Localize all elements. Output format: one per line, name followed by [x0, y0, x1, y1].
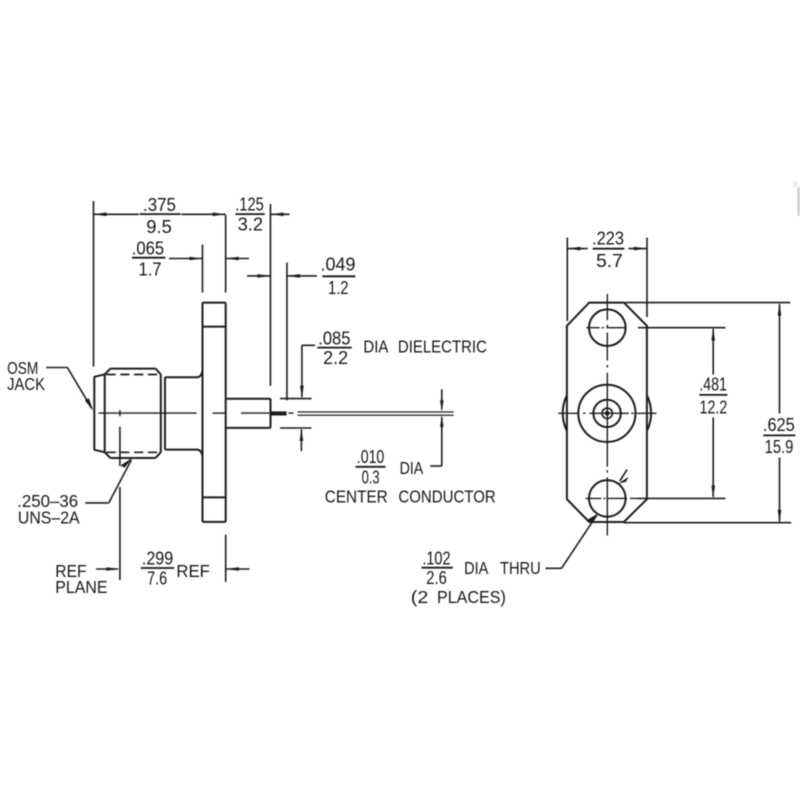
- svg-text:9.5: 9.5: [146, 217, 172, 237]
- ext line .223 right: [646, 238, 648, 318]
- svg-text:PLACES): PLACES): [437, 587, 506, 607]
- svg-text:.065: .065: [132, 238, 164, 258]
- arrow .049 left outside: [258, 274, 271, 278]
- thread dashed lines: [107, 375, 162, 453]
- left side arc bulge: [563, 396, 567, 431]
- right side arc bulge: [647, 396, 651, 431]
- svg-text:PLANE: PLANE: [55, 577, 107, 597]
- arrow conductor bottom (up): [440, 416, 444, 427]
- arrow dielectric bottom (up): [300, 428, 304, 441]
- bottom hole centerline: [586, 497, 644, 499]
- arrowheads right view: [567, 247, 781, 523]
- svg-text:CENTER: CENTER: [325, 486, 388, 506]
- arrow dielectric top (down): [300, 386, 304, 399]
- dia center conductor arrow stems: [441, 389, 443, 409]
- arrowheads left view: [85, 213, 444, 571]
- arrow .065 right outside: [226, 257, 239, 261]
- svg-text:.102: .102: [422, 549, 450, 569]
- extension line flange rear: [225, 215, 227, 293]
- pin dot: [605, 411, 610, 416]
- svg-text:.085: .085: [318, 329, 350, 349]
- bar .125/3.2: [235, 213, 264, 215]
- barrel: [165, 371, 203, 456]
- extension line flange rear lower (.299): [225, 535, 227, 582]
- center outer circle: [578, 385, 635, 442]
- arrow .250-36 leader: [121, 457, 133, 467]
- svg-text:THRU: THRU: [500, 558, 541, 578]
- bar .010/0.3: [356, 466, 386, 468]
- .299 right tail: [226, 568, 250, 570]
- bar .223/5.7: [593, 248, 625, 250]
- dim .125 right tail: [271, 213, 290, 215]
- dielectric: [226, 399, 271, 428]
- svg-text:UNS–2A: UNS–2A: [18, 508, 80, 528]
- arrow conductor top (down): [440, 400, 444, 411]
- svg-text:5.7: 5.7: [596, 251, 623, 271]
- top hole centerline: [586, 327, 626, 329]
- arrow ref plane: [106, 567, 119, 571]
- ext line .625 bottom: [624, 522, 791, 524]
- svg-text:1.7: 1.7: [139, 260, 162, 280]
- dim line .375: [94, 213, 139, 215]
- svg-text:CONDUCTOR: CONDUCTOR: [398, 486, 495, 506]
- arrow .223 left: [567, 247, 580, 251]
- dia dielectric arrow stems: [301, 345, 303, 397]
- svg-text:12.2: 12.2: [700, 398, 728, 418]
- ref plane line: [119, 427, 121, 580]
- svg-text:.481: .481: [699, 375, 727, 395]
- svg-text:REF: REF: [176, 561, 209, 581]
- svg-text:DIA: DIA: [464, 558, 488, 578]
- svg-text:.125: .125: [235, 195, 264, 215]
- vertical centerline: [606, 294, 608, 536]
- ext line hole bottom: [638, 497, 726, 499]
- center pin: [271, 411, 287, 415]
- bar .625/15.9: [763, 434, 795, 436]
- flange side view: [203, 303, 226, 522]
- svg-text:.299: .299: [142, 548, 173, 568]
- svg-text:0.3: 0.3: [362, 467, 380, 487]
- svg-text:2.2: 2.2: [323, 348, 348, 368]
- svg-text:.223: .223: [592, 228, 624, 248]
- right view dimensions: [546, 238, 792, 569]
- arrow .065 left: [189, 257, 202, 261]
- centerline left view: [99, 410, 294, 416]
- dim line .049: [247, 275, 271, 277]
- svg-text:.375: .375: [143, 195, 176, 215]
- dim line .481: [712, 329, 714, 375]
- arrow .125 right outside: [271, 213, 284, 217]
- arrow .049 right outside: [287, 274, 300, 278]
- leader .250-36: [85, 502, 109, 504]
- extension line mating face: [93, 201, 95, 367]
- dim line .625: [779, 304, 781, 414]
- arrow .375 right: [213, 213, 226, 217]
- hex nut: [105, 369, 161, 458]
- svg-text:DIA: DIA: [400, 458, 424, 478]
- leader .102 opposite stem: [620, 470, 627, 482]
- bottom mounting hole: [589, 480, 626, 517]
- arrow .375 left: [94, 213, 107, 217]
- bar .375/9.5: [140, 213, 181, 215]
- svg-text:(2: (2: [411, 587, 429, 607]
- arrow .102 leader on circle: [588, 514, 598, 524]
- dielectric circle: [593, 400, 620, 427]
- arrow .625 bottom (down): [778, 510, 782, 523]
- bar .085/2.2: [317, 347, 351, 349]
- bar .481/12.2: [699, 394, 727, 396]
- ref plane arrow line: [96, 568, 118, 570]
- svg-text:DIELECTRIC: DIELECTRIC: [398, 336, 487, 356]
- arrow OSM leader: [85, 398, 93, 411]
- right view centerlines: [558, 294, 656, 536]
- arrow .223 right: [634, 247, 647, 251]
- LEFT VIEW DIMENSIONS: [46, 201, 442, 582]
- pin ring: [602, 408, 612, 418]
- fraction bars: [132, 214, 795, 568]
- arrow .481 top (up): [711, 328, 715, 341]
- extension line pin tip: [286, 263, 288, 401]
- arrow .625 top (up): [778, 303, 782, 316]
- svg-text:.625: .625: [763, 415, 795, 435]
- svg-text:.049: .049: [321, 255, 356, 275]
- leader .102 dia thru: [546, 567, 562, 569]
- leader OSM JACK: [46, 367, 67, 369]
- svg-text:3.2: 3.2: [238, 215, 264, 235]
- extension line dielectric end: [269, 204, 271, 386]
- svg-text:15.9: 15.9: [765, 437, 794, 457]
- dim line .223: [567, 248, 587, 250]
- arrow .481 bottom (down): [711, 485, 715, 498]
- svg-text:.010: .010: [357, 447, 385, 467]
- dia dielectric extension lines: [280, 398, 312, 400]
- svg-text:JACK: JACK: [7, 374, 45, 394]
- top mounting hole: [589, 309, 626, 346]
- ext line hole top: [638, 327, 726, 329]
- svg-text:2.6: 2.6: [426, 568, 447, 588]
- washer (mating end): [94, 374, 104, 452]
- ext line .223 left: [566, 238, 568, 322]
- faint scan artifact right edge: [794, 181, 800, 216]
- dim line .065: [169, 258, 202, 260]
- arrow .299 right outside: [226, 567, 239, 571]
- bar .065/1.7: [132, 257, 165, 259]
- svg-text:1.2: 1.2: [328, 278, 349, 298]
- arrow .102 opposite (down-left): [618, 477, 628, 484]
- horizontal centerline: [558, 412, 656, 414]
- svg-text:DIA: DIA: [363, 336, 388, 356]
- bar .049/1.2: [322, 275, 355, 277]
- RIGHT VIEW: [563, 303, 651, 522]
- ext line .625 top: [625, 302, 790, 304]
- bar .102/2.6: [422, 567, 453, 569]
- center conductor: [298, 412, 454, 415]
- bar .299/7.6: [141, 567, 174, 569]
- extension line flange front: [201, 245, 203, 293]
- svg-text:7.6: 7.6: [147, 569, 167, 589]
- flange outline front view: [567, 303, 647, 522]
